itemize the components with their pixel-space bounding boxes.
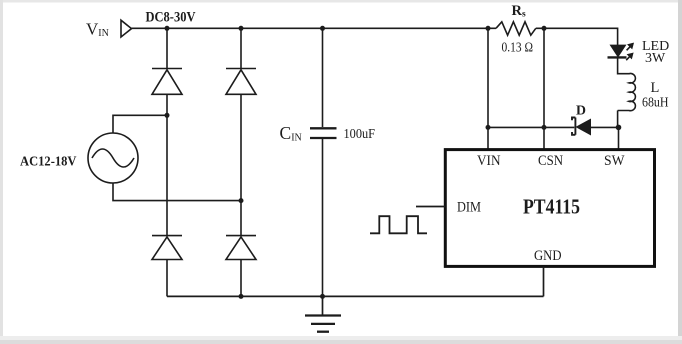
svg-text:68uH: 68uH [642, 96, 669, 111]
junction AC minus / bridge branch 2 [239, 198, 244, 203]
IC U1 PT4115 [445, 150, 654, 267]
ground [305, 296, 341, 331]
wire bridge branch 1 upper [166, 28, 168, 68]
diode D1 bridge [152, 69, 182, 95]
svg-text:DC8-30V: DC8-30V [146, 9, 196, 25]
inductor L1 [618, 73, 636, 110]
resistor Rs [496, 22, 536, 35]
wire SW pin branch [618, 127, 620, 149]
PWM dimming waveform [370, 216, 427, 233]
junction top rail / VIN pin branch [486, 26, 491, 31]
wire bridge branch 1 middle [166, 94, 168, 235]
input port VIN [121, 20, 132, 37]
wire inductor to SW node [617, 111, 619, 128]
wire LED to inductor [617, 57, 619, 74]
wire freewheel rail [488, 126, 619, 128]
wire CSN pin branch [543, 28, 545, 149]
wire bridge branch 1 lower [166, 260, 168, 297]
svg-text:3W: 3W [645, 51, 666, 66]
wire VIN pin branch [487, 28, 489, 149]
svg-text:PT4115: PT4115 [523, 195, 580, 219]
svg-text:GND: GND [534, 248, 562, 264]
junction freewheel / CSN pin branch [542, 125, 547, 130]
junction bottom rail / ground [320, 294, 325, 299]
svg-text:DIM: DIM [457, 200, 481, 216]
junction top rail / bridge branch 2 [239, 26, 244, 31]
junction freewheel / VIN pin branch [486, 125, 491, 130]
wire AC top lead [113, 115, 167, 133]
junction freewheel / SW branch [616, 125, 622, 131]
AC source V1 [88, 133, 138, 183]
svg-text:SW: SW [604, 153, 625, 169]
wire CIN branch top [322, 28, 324, 127]
junction top rail / CSN pin branch [542, 26, 547, 31]
wire GND pin lead [543, 266, 545, 296]
junction top rail / bridge branch 1 [165, 26, 170, 31]
svg-text:0.13 Ω: 0.13 Ω [502, 40, 534, 55]
diode D4 bridge [226, 236, 256, 260]
wire CIN branch bottom [322, 139, 324, 296]
diode D freewheeling schottky [572, 118, 591, 135]
svg-text:AC12-18V: AC12-18V [20, 154, 77, 169]
LED LED1 [608, 44, 633, 61]
wire LED branch top [617, 28, 619, 46]
wire top rail [132, 27, 497, 29]
wire DIM lead [416, 206, 445, 208]
wire AC bottom lead [113, 183, 241, 201]
junction bottom rail / bridge branch 2 [239, 294, 244, 299]
junction AC plus / bridge branch 1 [165, 113, 170, 118]
svg-text:VIN: VIN [477, 153, 501, 169]
diode D2 bridge [226, 69, 256, 95]
svg-text:D: D [576, 103, 586, 118]
capacitor CIN [310, 128, 337, 138]
svg-text:100uF: 100uF [344, 127, 376, 142]
junction top rail / CIN branch [320, 26, 325, 31]
wire bottom rail [167, 295, 544, 297]
wire bridge branch 2 lower [240, 260, 242, 297]
wire bridge branch 2 upper [240, 28, 242, 68]
svg-text:CSN: CSN [538, 153, 563, 169]
wire bridge branch 2 middle [240, 94, 242, 235]
diode D3 bridge [152, 236, 182, 260]
svg-text:L: L [651, 80, 660, 96]
